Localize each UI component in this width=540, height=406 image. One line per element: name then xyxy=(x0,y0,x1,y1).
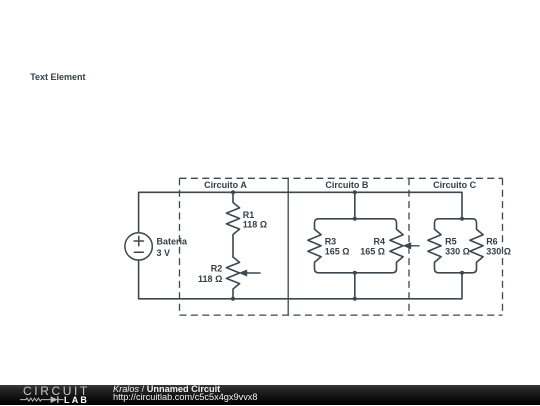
svg-text:330 Ω: 330 Ω xyxy=(486,247,511,257)
svg-text:R2: R2 xyxy=(211,264,223,274)
wire: bottom rail from battery to Circuito C drop xyxy=(139,260,462,299)
potentiometer R2 zigzag xyxy=(226,257,239,299)
dashed divider between Circuito B and C xyxy=(408,178,410,315)
svg-text:R4: R4 xyxy=(373,237,385,247)
circuit C parallel network R5 R6 loop xyxy=(428,219,483,273)
dashed border Circuito C right edge xyxy=(502,178,504,315)
dashed border Circuito A box xyxy=(180,178,503,315)
node dot C network top xyxy=(460,217,464,221)
resistor R1 zigzag xyxy=(226,192,239,257)
svg-text:3 V: 3 V xyxy=(157,248,171,258)
potentiometer R2 wiper arrow xyxy=(247,272,260,274)
svg-text:165 Ω: 165 Ω xyxy=(325,247,350,257)
svg-text:Circuito A: Circuito A xyxy=(204,180,247,190)
node dot A top xyxy=(231,190,235,194)
arrowhead R4 xyxy=(403,242,412,249)
arrowhead R2 xyxy=(239,270,248,277)
svg-text:R3: R3 xyxy=(325,237,337,247)
node dot B bottom wire xyxy=(353,297,357,301)
node dot B network top xyxy=(353,217,357,221)
svg-text:Bateria: Bateria xyxy=(157,237,189,247)
circuit B parallel network R3 R4 loop xyxy=(308,219,403,273)
svg-text:Circuito B: Circuito B xyxy=(325,180,369,190)
potentiometer R4 wiper arrow xyxy=(411,245,420,247)
svg-text:Text Element: Text Element xyxy=(30,72,85,82)
svg-text:R6: R6 xyxy=(486,237,498,247)
solid divider between Circuito A and B xyxy=(287,178,289,315)
svg-text:Circuito C: Circuito C xyxy=(433,180,477,190)
voltage source plus sign xyxy=(134,236,143,245)
logo wire-resistor-diode glyph xyxy=(20,396,64,403)
svg-text:165 Ω: 165 Ω xyxy=(360,247,385,257)
svg-text:118 Ω: 118 Ω xyxy=(198,274,222,284)
voltage source minus sign xyxy=(134,251,143,253)
node dot B network bottom xyxy=(353,271,357,275)
svg-text:R5: R5 xyxy=(445,237,457,247)
wire: stub top wire to B network xyxy=(354,192,356,219)
svg-text:330 Ω: 330 Ω xyxy=(445,247,470,257)
node dot A bottom xyxy=(231,297,235,301)
svg-text:118 Ω: 118 Ω xyxy=(243,220,267,230)
voltage source V1 Bateria circle xyxy=(125,233,152,260)
node dot C network bottom xyxy=(460,271,464,275)
wire: top rail from battery to Circuito C drop xyxy=(139,192,462,232)
wire: stub B network to bottom wire xyxy=(354,273,356,299)
node dot B top wire xyxy=(353,190,357,194)
